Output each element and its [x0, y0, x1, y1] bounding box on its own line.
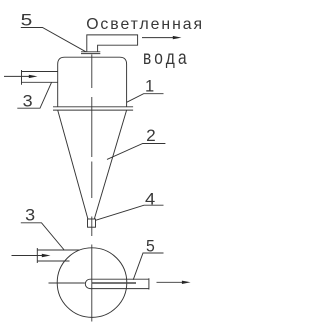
svg-text:1: 1	[145, 78, 154, 96]
svg-text:4: 4	[145, 191, 155, 209]
svg-text:вода: вода	[143, 46, 190, 68]
svg-text:2: 2	[146, 127, 156, 145]
svg-text:5: 5	[146, 238, 155, 256]
svg-text:3: 3	[25, 206, 35, 224]
svg-text:3: 3	[23, 92, 33, 110]
svg-text:5: 5	[21, 12, 33, 30]
svg-text:Осветленная: Осветленная	[86, 16, 201, 33]
